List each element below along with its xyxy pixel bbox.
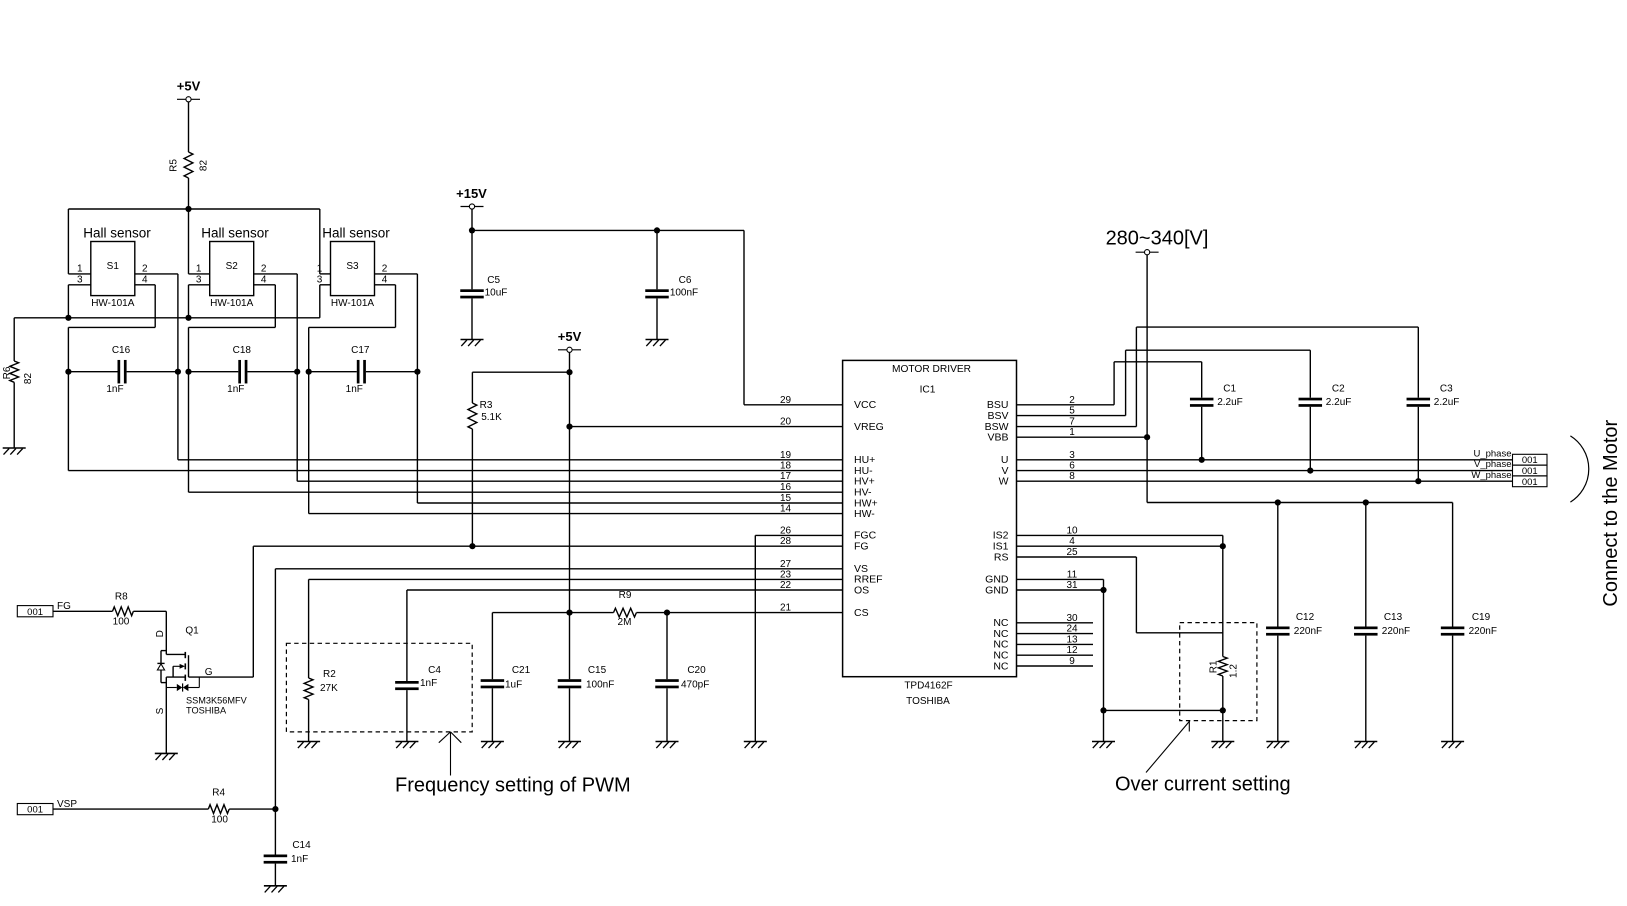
svg-text:FG: FG [854,541,869,553]
svg-text:1: 1 [77,264,83,275]
svg-text:C18: C18 [233,345,252,356]
svg-text:GND: GND [985,584,1009,596]
svg-text:HW-101A: HW-101A [210,298,253,309]
svg-text:1.2: 1.2 [1228,664,1239,678]
svg-text:TPD4162F: TPD4162F [904,681,952,692]
svg-text:R9: R9 [619,590,632,601]
svg-text:+5V: +5V [558,329,582,344]
svg-text:VCC: VCC [854,399,877,411]
svg-text:1nF: 1nF [291,854,308,865]
svg-text:MOTOR DRIVER: MOTOR DRIVER [892,364,971,375]
svg-text:W: W [999,476,1009,488]
svg-text:V_phase: V_phase [1474,459,1512,470]
svg-text:001: 001 [27,607,43,618]
svg-text:1uF: 1uF [505,679,522,690]
svg-text:R3: R3 [480,400,493,411]
svg-text:2: 2 [142,264,148,275]
svg-text:S2: S2 [226,261,239,272]
svg-text:D: D [155,630,166,637]
svg-text:3: 3 [317,275,323,286]
svg-text:S1: S1 [107,261,120,272]
svg-text:100nF: 100nF [670,287,698,298]
svg-text:U_phase: U_phase [1473,448,1511,459]
svg-text:C2: C2 [1332,383,1345,394]
svg-text:RS: RS [994,551,1009,563]
svg-text:100nF: 100nF [586,679,614,690]
svg-text:C20: C20 [687,665,706,676]
svg-text:C16: C16 [112,345,131,356]
svg-text:VBB: VBB [987,432,1008,444]
svg-text:C13: C13 [1384,612,1403,623]
svg-text:100: 100 [211,814,228,825]
svg-text:Q1: Q1 [185,626,199,637]
svg-text:TOSHIBA: TOSHIBA [186,705,227,715]
svg-text:001: 001 [1522,477,1538,488]
svg-text:5.1K: 5.1K [481,412,502,423]
svg-text:C12: C12 [1296,612,1315,623]
svg-text:C15: C15 [588,665,607,676]
svg-text:Hall sensor: Hall sensor [83,226,151,241]
svg-text:Frequency setting of PWM: Frequency setting of PWM [395,775,631,797]
svg-text:2M: 2M [618,617,632,628]
svg-text:10uF: 10uF [485,287,508,298]
svg-text:R8: R8 [115,592,128,603]
svg-text:HW-: HW- [854,508,875,520]
svg-text:C19: C19 [1472,612,1491,623]
svg-text:3: 3 [196,275,202,286]
svg-text:TOSHIBA: TOSHIBA [906,696,950,707]
svg-text:VREG: VREG [854,421,884,433]
svg-text:VSP: VSP [57,799,77,810]
svg-text:+5V: +5V [177,79,201,94]
svg-text:1nF: 1nF [227,384,244,395]
svg-text:100: 100 [113,616,130,627]
svg-text:2: 2 [382,264,388,275]
svg-text:3: 3 [77,275,83,286]
svg-text:C21: C21 [512,665,531,676]
svg-text:S3: S3 [346,261,359,272]
svg-text:C4: C4 [428,665,441,676]
svg-text:R6: R6 [2,366,13,379]
svg-text:280~340[V]: 280~340[V] [1106,228,1209,250]
svg-text:2.2uF: 2.2uF [1217,397,1243,408]
svg-text:Hall sensor: Hall sensor [322,226,390,241]
svg-text:001: 001 [27,805,43,816]
svg-text:CS: CS [854,607,869,619]
svg-text:4: 4 [261,275,267,286]
svg-text:SSM3K56MFV: SSM3K56MFV [186,695,248,705]
svg-text:1: 1 [196,264,202,275]
svg-text:Hall sensor: Hall sensor [201,226,269,241]
svg-text:2.2uF: 2.2uF [1326,397,1352,408]
svg-text:Connect to the Motor: Connect to the Motor [1600,419,1622,606]
svg-text:1nF: 1nF [420,678,437,689]
svg-text:IC1: IC1 [920,384,936,395]
svg-text:R5: R5 [169,159,180,172]
svg-text:20: 20 [780,417,792,428]
svg-text:1nF: 1nF [346,384,363,395]
svg-text:C1: C1 [1223,383,1236,394]
svg-text:220nF: 220nF [1469,626,1497,637]
svg-text:NC: NC [993,660,1009,672]
svg-text:2: 2 [261,264,267,275]
svg-text:HW-101A: HW-101A [91,298,134,309]
svg-text:R4: R4 [212,788,225,799]
svg-text:OS: OS [854,584,869,596]
svg-text:FG: FG [57,601,71,612]
svg-text:1nF: 1nF [106,384,123,395]
svg-text:2.2uF: 2.2uF [1434,397,1460,408]
svg-text:C17: C17 [351,345,370,356]
svg-text:C3: C3 [1440,383,1453,394]
svg-text:S: S [155,707,166,714]
svg-text:220nF: 220nF [1294,626,1322,637]
svg-text:4: 4 [382,275,388,286]
svg-text:29: 29 [780,395,792,406]
svg-text:82: 82 [199,160,210,172]
svg-text:470pF: 470pF [681,679,709,690]
svg-text:R2: R2 [323,669,336,680]
svg-text:27K: 27K [320,683,338,694]
svg-text:C6: C6 [679,275,692,286]
svg-text:+15V: +15V [456,186,487,201]
svg-text:C14: C14 [292,840,311,851]
svg-text:C5: C5 [487,275,500,286]
svg-text:HW-101A: HW-101A [331,298,374,309]
svg-text:R1: R1 [1209,660,1220,673]
svg-text:Over current setting: Over current setting [1115,774,1291,796]
svg-text:G: G [205,667,213,678]
svg-text:82: 82 [23,373,34,385]
svg-text:W_phase: W_phase [1471,470,1511,481]
svg-text:4: 4 [142,275,148,286]
svg-text:220nF: 220nF [1382,626,1410,637]
